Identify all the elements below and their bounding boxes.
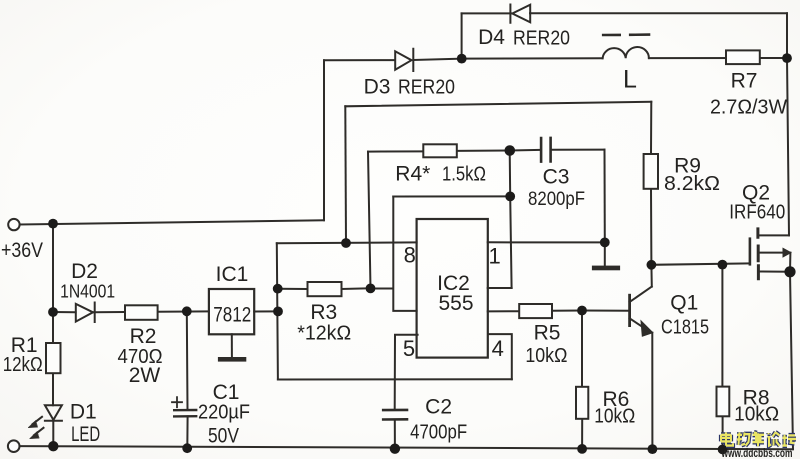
wire C3 to ground riser x604 [604, 150, 606, 243]
label Q1 [670, 292, 698, 315]
svg-text:LED: LED [71, 423, 100, 446]
node D1 bottom junction [48, 441, 58, 451]
wire branch x53 [52, 224, 54, 312]
label RER20 D4 [513, 28, 570, 50]
diode D2 1N4001 [76, 303, 95, 323]
node D3 cathode junction [457, 54, 467, 64]
resistor R9 [644, 154, 658, 189]
resistor R8 [717, 387, 730, 417]
wire bottom rail [20, 446, 793, 449]
label 10kohm R8 [734, 404, 779, 426]
svg-text:www.ddcbbs.com: www.ddcbbs.com [721, 448, 793, 459]
node R4/C3 junction [505, 145, 516, 156]
svg-text:L: L [623, 66, 637, 94]
wire Q1 base [582, 310, 630, 312]
resistor R7 [726, 50, 760, 64]
label 10kohm R6 [594, 406, 635, 428]
LED D1 [28, 405, 62, 439]
svg-text:4: 4 [492, 336, 504, 361]
svg-text:1: 1 [488, 243, 500, 268]
label 1.5kohm [442, 164, 486, 186]
wire IC1 output [254, 310, 278, 312]
wire pin5 stub [395, 335, 418, 449]
capacitor C1 plates [172, 397, 196, 416]
IC2 555 box [417, 219, 488, 358]
resistor R6 [576, 387, 588, 419]
node C1 bottom junction [182, 443, 192, 453]
wire riser x346 [344, 106, 347, 243]
svg-text:RER20: RER20 [398, 77, 455, 99]
pin 4 [492, 336, 504, 361]
svg-text:8200pF: 8200pF [528, 189, 585, 210]
node VCC R3 junction [273, 284, 283, 294]
svg-text:R4*: R4* [395, 163, 430, 186]
label C2 [425, 396, 452, 419]
svg-text:R3: R3 [310, 301, 337, 324]
label R4* [395, 163, 430, 186]
wire top D4 run [462, 12, 787, 14]
label 8200pF [528, 189, 585, 210]
IC1 7812 box [209, 289, 254, 334]
pin 8 [404, 242, 416, 267]
wire IC1 ground stub [231, 334, 233, 357]
diode D3 RER20 [395, 49, 413, 71]
svg-text:C2: C2 [425, 396, 452, 419]
node pin8 junction [341, 238, 351, 248]
label D3 [364, 76, 391, 99]
wire pin1 stub [488, 287, 512, 289]
wire pin4 stub [488, 334, 512, 379]
pin 1 [488, 243, 500, 268]
node C2 bottom junction [390, 444, 400, 454]
wire D3 run [324, 59, 462, 61]
label C1 [213, 381, 240, 404]
svg-text:1.5kΩ: 1.5kΩ [442, 164, 486, 186]
node ground junction [600, 238, 610, 248]
capacitor C3 with wires [510, 138, 605, 162]
node Q1 emitter bottom junction [648, 444, 658, 454]
svg-text:1N4001: 1N4001 [60, 282, 115, 302]
wire riser x369 R4 to R3 [368, 152, 371, 289]
node R6 bottom junction [577, 444, 587, 454]
label 555 [438, 292, 473, 315]
ground bar IC1 [218, 357, 246, 362]
label 50V [208, 425, 239, 448]
label L [623, 66, 637, 94]
transistor Q2 IRF640 [750, 229, 791, 279]
svg-text:R2: R2 [130, 325, 157, 348]
svg-text:R7: R7 [731, 70, 758, 93]
svg-text:10kΩ: 10kΩ [525, 345, 567, 367]
wire pin2-6 jog [371, 197, 417, 311]
label R8 [743, 386, 770, 409]
wire +36V rail [20, 220, 325, 224]
svg-text:12kΩ: 12kΩ [3, 354, 43, 376]
label D1 [70, 400, 97, 423]
node R8 top junction [718, 260, 728, 270]
wire gate [651, 263, 750, 264]
wire R8 branch [721, 265, 723, 450]
label D2 [71, 260, 98, 283]
svg-text:C1815: C1815 [661, 317, 709, 339]
node R5/R6 junction [577, 306, 587, 316]
terminal top left [8, 219, 19, 230]
label C3 [543, 166, 570, 189]
label R5 [534, 322, 561, 345]
resistor R5 with wires [488, 304, 582, 318]
svg-text:10kΩ: 10kΩ [594, 406, 635, 428]
wire main run y58 [462, 57, 787, 60]
label RER20 D3 [398, 77, 455, 99]
svg-text:Q1: Q1 [670, 292, 698, 315]
wire riser left to D3 [323, 60, 325, 220]
node pin1/pin2 junction [505, 192, 515, 202]
svg-text:4700pF: 4700pF [410, 421, 467, 443]
svg-text:D3: D3 [364, 76, 391, 99]
resistor R4 with wires [368, 144, 510, 157]
label 12kohm R1 [3, 354, 43, 376]
ground bar IC2 [592, 266, 620, 271]
node R2/IC1 input junction [182, 306, 192, 316]
wire R6 branch [581, 311, 583, 449]
node R3/R4 junction [366, 284, 376, 294]
label *12kohm [297, 323, 351, 345]
svg-text:220µF: 220µF [198, 402, 250, 424]
svg-text:8: 8 [404, 242, 416, 267]
label +36V [1, 239, 43, 262]
label IRF640 [729, 202, 785, 224]
label IC2 [437, 272, 470, 295]
svg-text:50V: 50V [208, 425, 239, 448]
label 2W [129, 364, 161, 387]
svg-text:D2: D2 [71, 260, 98, 283]
label 470ohm [118, 346, 163, 368]
wire run y196 [393, 195, 510, 197]
resistor R1 [46, 343, 61, 373]
wire pin1 riser x511 [510, 151, 512, 289]
wire source to bottom right [790, 272, 793, 449]
wire pin4 bottom run y379 [278, 378, 512, 380]
svg-text:IC1: IC1 [216, 263, 249, 286]
svg-text:+36V: +36V [1, 239, 43, 262]
label R3 [310, 301, 337, 324]
label R9 [674, 155, 701, 178]
svg-text:IRF640: IRF640 [729, 202, 785, 224]
terminal bottom left [8, 440, 20, 452]
node Q2 source junction [784, 266, 795, 277]
wire run y104 [345, 102, 651, 107]
wire D2-R2 run [53, 310, 209, 313]
wire riser to D4 [461, 13, 463, 58]
label 4700pF [410, 421, 467, 443]
resistor R3 with wires [278, 282, 371, 296]
svg-text:2W: 2W [129, 364, 161, 387]
svg-text:8.2kΩ: 8.2kΩ [664, 173, 720, 195]
diode D4 RER20 [510, 5, 530, 23]
wire pin8 run y243 [277, 241, 417, 244]
watermark url [721, 448, 793, 460]
wire R9 vertical [650, 102, 652, 265]
label IC1 [216, 263, 249, 286]
label 7812 [213, 304, 251, 327]
svg-text:R5: R5 [534, 322, 561, 345]
resistor R2 [125, 305, 158, 320]
label R2 [130, 325, 157, 348]
svg-text:5: 5 [403, 336, 415, 361]
svg-text:2.7Ω/3W: 2.7Ω/3W [710, 97, 787, 119]
label 220uF [198, 402, 250, 424]
label D4 [478, 26, 505, 49]
svg-text:*12kΩ: *12kΩ [297, 323, 351, 345]
wire right riser drain [787, 13, 789, 235]
label 2.7ohm/3W [710, 97, 787, 119]
wire ground run y242 [488, 242, 605, 265]
svg-text:RER20: RER20 [513, 28, 570, 50]
capacitor C2 plates [383, 410, 407, 420]
wire VCC column x277 [277, 243, 278, 379]
node R8 bottom junction [718, 445, 728, 455]
wire R1 branch [52, 312, 54, 446]
svg-text:10kΩ: 10kΩ [734, 404, 779, 426]
wire C1 branch [186, 311, 189, 448]
watermark site name [721, 432, 796, 446]
label 8.2kohm [664, 173, 720, 195]
label C1815 [661, 317, 709, 339]
transistor Q1 C1815 [630, 265, 653, 449]
label R7 [731, 70, 758, 93]
node D2/R1 junction [48, 307, 58, 317]
label R1 [11, 334, 38, 357]
svg-text:C3: C3 [543, 166, 570, 189]
label 1N4001 [60, 282, 115, 302]
svg-text:7812: 7812 [213, 304, 251, 327]
node IC1 output junction [273, 307, 283, 317]
label 10kohm R5 [525, 345, 567, 367]
node R9/Q1 collector junction [647, 260, 657, 270]
node R7 right junction [782, 53, 792, 63]
svg-text:D4: D4 [478, 26, 505, 49]
svg-text:D1: D1 [70, 400, 97, 423]
svg-text:555: 555 [438, 292, 473, 315]
label R6 [602, 388, 629, 411]
label Q2 [742, 181, 770, 204]
label LED [71, 423, 100, 446]
node +36V junction [48, 219, 58, 229]
inductor L [603, 35, 649, 59]
pin 5 [403, 336, 415, 361]
